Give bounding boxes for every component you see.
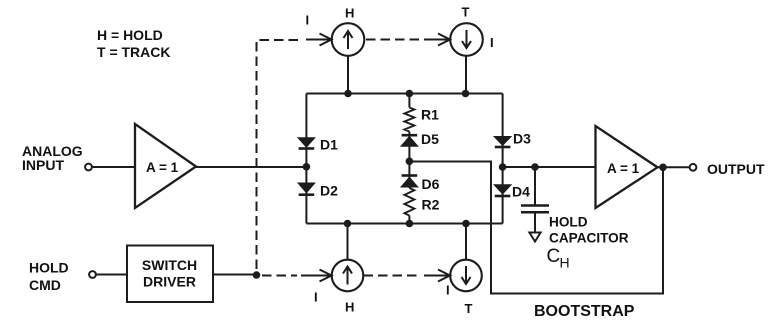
- wire: arrow into I3: [301, 270, 332, 282]
- wire: hold cap node to capacitor: [534, 167, 536, 205]
- svg-text:T: T: [465, 301, 473, 316]
- svg-text:SWITCH: SWITCH: [142, 257, 197, 273]
- svg-text:D6: D6: [422, 176, 440, 192]
- wire: bridge top rail: [306, 93, 502, 95]
- svg-text:BOOTSTRAP: BOOTSTRAP: [534, 303, 635, 320]
- wire: hold cmd terminal to switch driver: [96, 274, 127, 276]
- svg-text:C: C: [547, 246, 561, 267]
- wire: dashed control junction to I3: [262, 275, 297, 277]
- svg-text:HOLD: HOLD: [29, 260, 69, 276]
- wire: A1 output to bridge left node: [196, 166, 306, 168]
- resistor R1: [404, 108, 414, 132]
- legend H = HOLD / T = TRACK: [97, 27, 171, 60]
- svg-text:I: I: [446, 283, 450, 298]
- svg-text:R1: R1: [421, 107, 439, 123]
- wire: dashed control I1 to I2: [366, 39, 419, 41]
- terminal: output: [690, 164, 697, 171]
- op-amp U2 (output buffer): [596, 126, 658, 208]
- label ANALOG INPUT: [22, 143, 83, 173]
- svg-text:I: I: [490, 35, 494, 50]
- wire: bridge left arm: [305, 94, 307, 224]
- wire: bridge center branch middle: [408, 132, 410, 189]
- wire: bootstrap loop: [409, 162, 663, 294]
- diode D1: [299, 138, 315, 148]
- diode D3: [495, 137, 511, 147]
- svg-text:H: H: [560, 255, 570, 271]
- junction: bridge left node: [303, 163, 311, 171]
- svg-text:CMD: CMD: [29, 277, 61, 293]
- label HOLD CAPACITOR: [549, 215, 629, 246]
- svg-text:D2: D2: [320, 183, 338, 199]
- svg-text:INPUT: INPUT: [22, 157, 64, 173]
- svg-text:D3: D3: [513, 131, 531, 147]
- current source I1 (hold, up arrow): [332, 23, 365, 56]
- junction: top rail / I2: [462, 90, 470, 98]
- current source I4 (track, down arrow): [450, 260, 482, 292]
- wire: top rail to H current source: [347, 56, 349, 94]
- svg-text:HOLD: HOLD: [549, 215, 588, 230]
- wire: bridge center branch lower: [408, 216, 410, 224]
- wire: input terminal to A1: [92, 166, 135, 168]
- wire: switch driver output to control junction: [213, 274, 257, 276]
- wire: bottom rail to H current source: [347, 224, 349, 260]
- wire: top rail to T current source: [465, 56, 467, 94]
- junction: hold capacitor node: [531, 163, 539, 171]
- wire: bottom rail to T current source: [465, 224, 467, 260]
- svg-text:DRIVER: DRIVER: [143, 274, 196, 290]
- junction: control node: [253, 271, 261, 279]
- junction: bottom rail / center branch: [406, 220, 414, 228]
- junction: top rail / center branch: [406, 90, 414, 98]
- svg-text:D1: D1: [320, 137, 338, 153]
- junction: bootstrap center tap: [406, 158, 414, 166]
- switch driver U3: [127, 246, 213, 303]
- svg-text:H: H: [345, 300, 354, 315]
- terminal: hold cmd: [89, 271, 96, 278]
- svg-text:T: T: [462, 5, 470, 20]
- value label CH: [547, 246, 570, 271]
- diode D4: [495, 185, 511, 196]
- wire: bridge bottom rail: [306, 223, 502, 225]
- op-amp U1 (input buffer): [135, 124, 196, 208]
- junction: bottom rail / I3: [344, 220, 352, 228]
- wire: arrow into I4: [424, 270, 450, 282]
- svg-text:T = TRACK: T = TRACK: [97, 44, 171, 60]
- wire: bridge center branch upper: [408, 94, 410, 108]
- current source I2 (track, down arrow): [450, 23, 483, 56]
- svg-text:A = 1: A = 1: [607, 161, 640, 176]
- svg-text:OUTPUT: OUTPUT: [707, 161, 765, 177]
- svg-text:CAPACITOR: CAPACITOR: [549, 231, 629, 246]
- junction: bridge right node: [499, 163, 507, 171]
- label HOLD CMD: [29, 260, 69, 294]
- svg-text:H = HOLD: H = HOLD: [97, 27, 163, 43]
- wire: A2 output to output terminal: [658, 166, 690, 168]
- diode D5: [402, 135, 418, 146]
- wire: arrow into I1: [306, 34, 332, 46]
- svg-text:R2: R2: [422, 197, 440, 213]
- wire: dashed control I3 to I4: [364, 275, 420, 277]
- svg-text:H: H: [345, 6, 354, 21]
- current source I3 (hold, up arrow): [332, 260, 364, 292]
- terminal: analog input: [85, 164, 92, 171]
- junction: top rail / I1: [344, 90, 352, 98]
- svg-text:D4: D4: [512, 184, 530, 200]
- wire: dashed control line up to top row: [257, 40, 301, 269]
- capacitor CH: [521, 206, 549, 242]
- svg-text:I: I: [306, 13, 310, 28]
- wire: arrow into I2: [424, 34, 450, 46]
- wire: bridge right arm: [502, 94, 504, 224]
- svg-text:D5: D5: [421, 131, 439, 147]
- wire: bridge right node to A2: [503, 166, 596, 168]
- diode D6: [402, 176, 418, 187]
- svg-text:A = 1: A = 1: [146, 160, 179, 175]
- svg-text:I: I: [314, 290, 318, 305]
- resistor R2: [404, 188, 414, 216]
- diode D2: [299, 184, 315, 195]
- junction: bottom rail / I4: [462, 220, 470, 228]
- junction: output node: [659, 164, 667, 172]
